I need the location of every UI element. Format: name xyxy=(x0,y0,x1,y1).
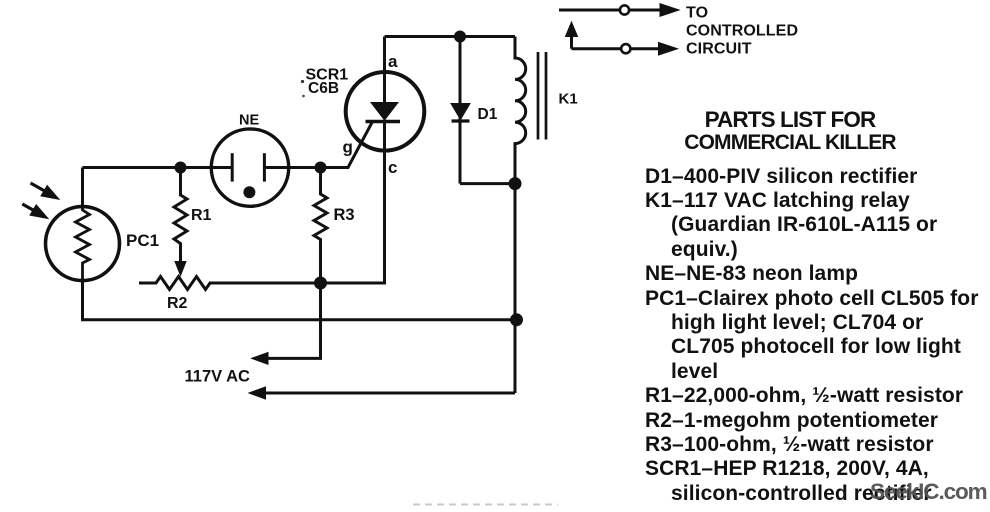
svg-text:D1: D1 xyxy=(478,106,498,123)
label K1 xyxy=(559,91,578,108)
wire PC1 bottom lead xyxy=(81,281,84,320)
wire top horizontal (anode to relay) xyxy=(385,35,516,38)
label R1 xyxy=(191,207,212,224)
svg-text:117V AC: 117V AC xyxy=(185,368,251,386)
resistor R3 xyxy=(314,168,327,284)
wire D1 bottom to relay bottom xyxy=(460,182,515,185)
svg-text:R1: R1 xyxy=(191,207,212,224)
parts list xyxy=(645,165,990,507)
label TO CONTROLLED CIRCUIT xyxy=(686,5,798,58)
wire bottom horizontal xyxy=(81,318,517,321)
relay contact line 1 xyxy=(559,9,661,12)
relay coil K1 xyxy=(515,37,546,184)
node junction top / D1 xyxy=(454,31,466,43)
contact circle 1 xyxy=(620,5,629,14)
svg-text:PC1: PC1 xyxy=(126,231,159,250)
svg-text:CIRCUIT: CIRCUIT xyxy=(686,40,752,57)
arrowhead contact 2 xyxy=(659,42,678,55)
faint caption dashes xyxy=(413,504,558,506)
svg-text:TO: TO xyxy=(686,5,708,22)
R1 wiper arrow xyxy=(175,262,186,276)
diode D1 xyxy=(451,37,470,184)
wire 117V AC line 2 xyxy=(263,392,515,395)
node junction relay bottom xyxy=(509,177,522,190)
wire 117V AC line 1 xyxy=(266,283,321,358)
arrowhead contact 1 xyxy=(660,4,679,17)
speck near SCR1 xyxy=(301,80,304,83)
armature arrow up xyxy=(566,22,578,49)
light arrow 1 xyxy=(31,183,60,199)
wire gate diagonal xyxy=(321,122,373,168)
photocell PC1 xyxy=(46,207,120,281)
label NE xyxy=(239,113,259,129)
SCR1 thyristor xyxy=(321,37,425,284)
label R2 xyxy=(167,295,188,312)
svg-text:g: g xyxy=(343,138,353,157)
svg-text:c: c xyxy=(388,158,397,177)
contact circle 2 xyxy=(621,44,630,53)
light arrow 2 xyxy=(22,204,48,219)
potentiometer R2 xyxy=(139,277,321,290)
parts list title xyxy=(620,109,960,155)
speck near C6B xyxy=(302,95,305,98)
svg-text:CONTROLLED: CONTROLLED xyxy=(686,22,798,39)
pin label g xyxy=(343,138,353,157)
wire NE right electrode to gate corner xyxy=(264,166,348,169)
wire PC1 top lead xyxy=(81,168,84,207)
label R3 xyxy=(334,206,355,224)
svg-text:a: a xyxy=(388,52,398,71)
label PC1 xyxy=(126,231,159,250)
label C6B xyxy=(308,80,339,97)
svg-text:C6B: C6B xyxy=(308,80,339,97)
wire top-left horizontal (PC1 top to NE left electrode) xyxy=(83,166,233,169)
resistor R1 xyxy=(174,168,187,263)
svg-text:NE: NE xyxy=(239,113,259,129)
label SCR1 xyxy=(306,67,349,84)
node junction R1 top xyxy=(175,162,187,174)
relay contact line 2 xyxy=(572,47,660,50)
svg-text:R3: R3 xyxy=(334,206,355,224)
arrowhead AC line 2 xyxy=(249,387,266,399)
label 117V AC xyxy=(185,368,251,386)
arrowhead AC line 1 xyxy=(252,353,268,365)
svg-text:K1: K1 xyxy=(559,91,578,108)
node junction R3 top / gate xyxy=(315,162,327,174)
pin label a xyxy=(388,52,398,71)
node junction R2/R3/cathode xyxy=(314,277,327,290)
watermark xyxy=(870,479,987,505)
neon lamp NE xyxy=(211,129,288,206)
wire relay bottom down to AC xyxy=(514,184,517,393)
label D1 xyxy=(478,106,498,123)
pin label c xyxy=(388,158,397,177)
node junction bottom wire xyxy=(510,313,523,326)
svg-text:R2: R2 xyxy=(167,295,188,312)
